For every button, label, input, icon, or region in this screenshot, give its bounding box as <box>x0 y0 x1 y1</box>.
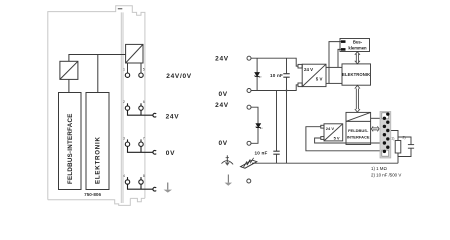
svg-text:5: 5 <box>143 67 145 71</box>
svg-text:7: 7 <box>143 136 145 140</box>
svg-text:FELDBUS-: FELDBUS- <box>348 128 369 133</box>
svg-text:2) 10 nF /500 V: 2) 10 nF /500 V <box>371 172 401 177</box>
svg-text:2): 2) <box>403 136 406 140</box>
svg-text:10 nF: 10 nF <box>270 73 283 78</box>
svg-text:10 nF: 10 nF <box>255 151 268 156</box>
svg-text:0V: 0V <box>218 140 227 147</box>
svg-text:24V: 24V <box>215 102 229 109</box>
svg-text:750-806: 750-806 <box>84 192 101 197</box>
svg-text:3: 3 <box>123 136 125 140</box>
svg-text:u: u <box>261 127 263 130</box>
svg-text:24 V: 24 V <box>304 67 313 72</box>
svg-text:1): 1) <box>391 136 394 140</box>
svg-text:Bus-: Bus- <box>353 40 363 45</box>
svg-text:ELEKTRONIK: ELEKTRONIK <box>95 136 102 184</box>
svg-text:klemmen: klemmen <box>348 46 367 51</box>
svg-text:24V: 24V <box>166 113 180 120</box>
svg-text:8: 8 <box>143 174 145 178</box>
svg-text:0V: 0V <box>166 150 175 157</box>
svg-text:1) 1 MΩ: 1) 1 MΩ <box>371 166 387 171</box>
svg-text:0V: 0V <box>218 91 227 98</box>
svg-text:24V/0V: 24V/0V <box>166 73 192 80</box>
svg-text:24 V: 24 V <box>326 126 335 131</box>
svg-text:4: 4 <box>123 174 125 178</box>
svg-text:5 V: 5 V <box>334 136 340 141</box>
svg-text:5 V: 5 V <box>316 77 323 82</box>
svg-text:2: 2 <box>123 100 125 104</box>
svg-text:24V: 24V <box>215 56 229 63</box>
svg-text:INTERFACE: INTERFACE <box>347 134 370 139</box>
svg-text:6: 6 <box>143 100 145 104</box>
svg-text:1: 1 <box>123 67 125 71</box>
svg-text:FELDBUS-INTERFACE: FELDBUS-INTERFACE <box>67 113 74 184</box>
svg-text:u: u <box>260 76 262 79</box>
svg-text:ELEKTRONIK: ELEKTRONIK <box>342 72 370 77</box>
